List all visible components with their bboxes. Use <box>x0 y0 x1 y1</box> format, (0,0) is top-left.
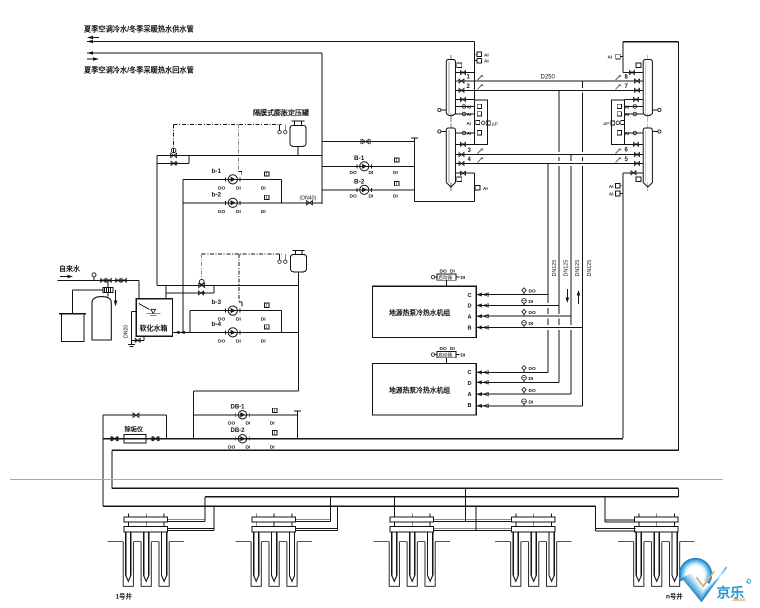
riser g34 b <box>475 506 477 530</box>
AI tap on x474 <box>475 185 487 191</box>
header H4 right-lower <box>643 124 652 192</box>
heat pump unit U1 <box>373 286 477 337</box>
svg-text:DI: DI <box>270 421 275 427</box>
svg-text:DN125: DN125 <box>564 260 570 277</box>
wire x193.6 down <box>193 391 195 439</box>
svg-text:AI: AI <box>467 131 471 136</box>
pipe 3-6 <box>456 154 644 156</box>
expansion tank T1 <box>290 121 306 146</box>
wire descaler bypass <box>103 414 166 416</box>
tank1 safety a <box>278 125 281 134</box>
svg-text:地源热泵冷热水机组: 地源热泵冷热水机组 <box>389 308 450 317</box>
vent G H3 <box>636 63 641 68</box>
tap H1 left <box>438 108 447 111</box>
svg-text:DI: DI <box>529 376 534 382</box>
flag pipe4 R <box>616 157 622 162</box>
sensor DB-2 <box>273 431 277 435</box>
svg-text:AI: AI <box>484 59 489 64</box>
wire b-box right <box>281 179 283 202</box>
wire right border <box>678 42 680 451</box>
wire U1-B <box>476 326 582 328</box>
pipe supply P1 <box>87 40 474 44</box>
wire U2-D <box>476 381 559 383</box>
wire head to brine <box>73 290 103 314</box>
svg-text:DI: DI <box>236 317 241 323</box>
wire riser right x623 top <box>622 42 624 73</box>
svg-text:ΔP: ΔP <box>492 121 498 127</box>
well group 4 <box>495 514 572 587</box>
branch H2 to dP-L <box>456 143 475 145</box>
motor valve y155.4 <box>171 148 177 158</box>
valve pipe1 L <box>459 79 464 83</box>
flag pipe3 L <box>478 149 484 154</box>
check y292.9 <box>199 291 206 295</box>
wire row DB-1 <box>194 414 298 416</box>
svg-text:AI: AI <box>467 105 471 110</box>
soft water tank <box>136 299 172 337</box>
ground line <box>10 479 723 481</box>
svg-text:夏季空调冷水/冬季采暖热水供水管: 夏季空调冷水/冬季采暖热水供水管 <box>83 25 194 34</box>
sensor DB-1 <box>273 408 277 412</box>
svg-text:AI: AI <box>609 184 614 189</box>
wire x166 to tank <box>165 285 167 298</box>
AI tap supply-2 <box>474 58 488 63</box>
svg-text:B: B <box>468 403 472 409</box>
svg-text:A: A <box>468 392 472 398</box>
valve pipe4 R <box>635 161 640 165</box>
arrow tap water <box>60 275 73 278</box>
well group 5 <box>618 514 695 587</box>
flag pipe2 L <box>478 84 484 89</box>
valve tap 3 <box>116 279 121 283</box>
valve pipe3 L <box>459 153 464 157</box>
wire row C <box>103 505 595 507</box>
wire row B-1 <box>322 165 414 167</box>
svg-text:隔膜式膨胀定压罐: 隔膜式膨胀定压罐 <box>253 108 309 117</box>
svg-text:b-1: b-1 <box>212 168 222 175</box>
wire x414 down <box>413 142 415 202</box>
svg-text:DI: DI <box>261 338 266 344</box>
ctrl dashdot x173.6 <box>173 125 175 148</box>
wire row DA left end <box>111 450 113 488</box>
wire U2-C <box>476 371 548 373</box>
pipe 4-5 <box>456 162 644 164</box>
svg-text:DN125: DN125 <box>575 260 581 277</box>
svg-text:DN20: DN20 <box>124 325 130 338</box>
svg-text:除垢仪: 除垢仪 <box>125 426 144 434</box>
svg-text:DO: DO <box>228 421 235 427</box>
svg-text:AI: AI <box>484 52 489 57</box>
svg-text:B-2: B-2 <box>354 179 365 186</box>
ctrl dashdot x238.9 <box>239 254 242 306</box>
wire suction y155.4 <box>157 154 322 156</box>
sensor b-4 <box>265 325 269 329</box>
branch H4 to dP-R <box>625 143 644 145</box>
branch H1 to dP-L <box>456 99 475 101</box>
tap H3 right <box>652 108 661 111</box>
pump b-2 <box>226 198 240 207</box>
wire y390.8 <box>194 390 299 392</box>
pipe 2-7 <box>456 89 644 91</box>
vent G H2 <box>457 177 462 182</box>
riser g1 b <box>213 506 215 530</box>
wire row b-4 <box>190 331 299 333</box>
wire top row y141.5 <box>322 141 414 143</box>
svg-text:DI: DI <box>236 185 241 191</box>
bus DN125 v4 <box>582 81 584 406</box>
valve descaler R <box>152 437 159 442</box>
svg-text:n号井: n号井 <box>666 592 683 601</box>
dP block left U-AI <box>456 100 498 145</box>
bus DN125 v1 <box>547 163 549 372</box>
wire U2-B <box>476 405 582 407</box>
tank2 safety b <box>284 254 287 263</box>
level mark <box>147 309 161 316</box>
svg-text:DI: DI <box>369 170 374 176</box>
vent G H1 <box>457 63 462 68</box>
svg-text:A: A <box>468 314 472 320</box>
valve tap 2 <box>107 279 112 283</box>
wire x214 link <box>213 285 215 293</box>
wire head drop <box>107 280 109 287</box>
valve pipe4 L <box>459 161 464 165</box>
pipe return P2 <box>87 51 322 55</box>
wire row D <box>112 449 679 451</box>
wire makeup y285.4 <box>157 284 299 286</box>
starter unit1 <box>431 268 466 286</box>
vent G H4 <box>636 177 641 182</box>
svg-text:DI: DI <box>236 338 241 344</box>
wire x623 long down <box>622 173 624 438</box>
motor valve y285.4 <box>199 279 205 287</box>
svg-text:DO: DO <box>228 444 235 450</box>
wire feed drop <box>138 280 140 298</box>
sensor b-3 <box>265 303 269 307</box>
tap H4 right <box>652 130 661 133</box>
arrow below return <box>87 57 99 61</box>
wire row B-2 <box>322 189 414 191</box>
svg-text:ΔP: ΔP <box>603 121 609 127</box>
wire row B <box>205 496 678 498</box>
svg-text:DI: DI <box>450 346 455 352</box>
logo JingLe <box>679 558 750 602</box>
svg-text:DO: DO <box>350 194 357 200</box>
svg-text:DI: DI <box>246 421 251 427</box>
wire row b-2 <box>183 202 322 204</box>
wire return drop x322 <box>321 53 323 204</box>
AI tap x623 b <box>609 191 623 196</box>
svg-text:DO: DO <box>218 185 225 191</box>
AI tap supply-1 <box>474 52 488 57</box>
pump DB-2 <box>236 435 250 443</box>
wire U2-A <box>476 393 571 395</box>
svg-text:DI: DI <box>246 444 251 450</box>
riser g3 drop <box>394 497 396 517</box>
wire row b-3 <box>190 310 282 312</box>
wire row b-1 <box>183 178 281 180</box>
wire b-box left long <box>182 179 184 332</box>
valve descaler L <box>111 437 118 442</box>
header H2 left-lower <box>446 124 455 192</box>
svg-text:DO: DO <box>440 268 447 274</box>
starter unit2 <box>431 346 466 364</box>
conn g3-g4 bar1 <box>434 519 512 521</box>
valve pipe3 R <box>635 153 640 157</box>
svg-text:DO: DO <box>218 338 225 344</box>
flag pipe1 R <box>616 75 622 80</box>
wire P1 right segment <box>623 41 679 43</box>
AI tap right top <box>608 54 624 59</box>
wire U1-C <box>476 294 548 296</box>
cap x414 top <box>411 138 418 142</box>
wire bottom row left box <box>414 201 474 203</box>
valve y141.5 <box>361 139 371 144</box>
riser g2 a <box>330 497 332 522</box>
svg-text:夏季空调冷水/冬季采暖热水回水管: 夏季空调冷水/冬季采暖热水回水管 <box>83 66 194 75</box>
svg-text:DI: DI <box>369 194 374 200</box>
branch H4 bottom <box>623 172 643 174</box>
heat pump unit U2 <box>373 364 477 415</box>
well group 1 <box>108 514 185 587</box>
conn g1 bar1 <box>168 519 205 521</box>
well group 3 <box>374 514 451 587</box>
descaler box <box>124 434 146 443</box>
gauge on tap <box>92 273 96 281</box>
ctrl dashdot x201.7 <box>201 254 203 280</box>
wire x103.2 <box>102 415 104 506</box>
wire tank outlet <box>131 336 144 340</box>
valve pipe2 L <box>459 88 464 92</box>
valve tank drain <box>135 338 140 342</box>
svg-text:DO: DO <box>218 209 225 215</box>
svg-text:AI: AI <box>609 192 614 197</box>
branch H2 bottom <box>456 172 475 174</box>
svg-text:启动器: 启动器 <box>438 352 452 359</box>
softener head <box>103 287 113 292</box>
riser g2 b <box>337 506 339 530</box>
svg-text:AI: AI <box>483 186 488 191</box>
ctrl dashdot x238.3 <box>238 125 242 176</box>
header H3 right-upper <box>643 55 652 122</box>
sensor b-1 <box>265 172 269 176</box>
flag pipe1 L <box>478 75 484 80</box>
sensor b-2 <box>265 195 269 199</box>
svg-text:DO: DO <box>529 366 536 372</box>
branch H3 to dP-R <box>625 99 644 101</box>
flow arrow up <box>577 290 581 304</box>
wire bypass y163.3 <box>157 162 189 164</box>
AI tap x623 a <box>609 184 623 189</box>
svg-text:b-2: b-2 <box>212 192 222 199</box>
svg-text:DN125: DN125 <box>552 260 558 277</box>
ctrl dashdot y124.5 <box>174 124 282 126</box>
conn g5 bar1 <box>605 520 635 522</box>
svg-text:启动器: 启动器 <box>438 274 452 281</box>
brine tank <box>59 314 86 342</box>
tap H2 left <box>438 130 447 133</box>
svg-text:DO: DO <box>350 170 357 176</box>
svg-text:DB-1: DB-1 <box>231 405 246 411</box>
svg-text:DI: DI <box>236 209 241 215</box>
wire main row <box>103 438 623 440</box>
svg-text:R: R <box>747 580 749 584</box>
pump B-2 <box>357 185 371 194</box>
valve tap 4 <box>122 279 127 283</box>
pump b-1 <box>226 175 240 184</box>
well group 2 <box>235 514 312 587</box>
svg-text:C: C <box>468 293 472 299</box>
svg-text:DI: DI <box>450 268 455 274</box>
wire U1-A <box>476 315 571 317</box>
svg-text:AI: AI <box>625 105 629 110</box>
svg-text:DI: DI <box>529 321 534 327</box>
svg-text:AI: AI <box>608 55 613 60</box>
svg-text:DI: DI <box>261 317 266 323</box>
riser g5 a <box>604 497 606 522</box>
svg-text:b-3: b-3 <box>212 299 222 306</box>
sensor B-1 <box>395 158 399 162</box>
wire x474 down <box>473 173 475 201</box>
svg-text:DI: DI <box>261 209 266 215</box>
tank1 safety b <box>284 125 287 134</box>
svg-text:DO: DO <box>529 388 536 394</box>
flag pipe4 L <box>478 157 484 162</box>
riser g5 b <box>594 506 596 531</box>
wire riser left x474 <box>473 42 475 100</box>
pump B-1 <box>357 162 371 171</box>
svg-text:DI: DI <box>461 275 466 281</box>
riser g34 a <box>465 488 467 521</box>
wire bypass riser <box>188 155 190 163</box>
svg-text:DI: DI <box>461 353 466 359</box>
tank2 safety a <box>278 254 281 263</box>
svg-text:(DN40): (DN40) <box>300 196 317 202</box>
conn g3-g4 bar2 <box>434 528 512 530</box>
valve DN40 <box>307 201 313 205</box>
wire x156.9 down <box>156 155 158 285</box>
valve tap 1 <box>101 279 106 283</box>
conn g2 bar2 <box>295 528 337 530</box>
dP block right U-AI <box>603 100 643 145</box>
wire head neck <box>107 292 109 296</box>
pump DB-1 <box>236 411 250 419</box>
svg-text:B: B <box>468 326 472 332</box>
ctrl dashdot y254 <box>202 253 282 255</box>
svg-text:DI: DI <box>529 400 534 406</box>
float valve <box>139 304 150 310</box>
expansion tank T2 <box>291 250 307 271</box>
bus DN125 v3 <box>570 155 572 395</box>
svg-text:D: D <box>468 381 472 387</box>
sensor B-2 <box>395 181 399 185</box>
svg-text:AI: AI <box>625 112 629 117</box>
branch H3 top <box>623 72 643 74</box>
svg-text:JINGLE: JINGLE <box>733 598 747 602</box>
wire row AB right end <box>677 488 679 497</box>
svg-text:DN125: DN125 <box>587 260 593 277</box>
conn g1 bar2 <box>168 528 214 530</box>
wire makeup y292.9 <box>166 292 214 294</box>
conn g5 bar2 <box>595 529 635 531</box>
pump b-3 <box>226 306 240 315</box>
arrow above supply <box>87 36 99 40</box>
wire x166.3 <box>165 415 167 439</box>
svg-text:C: C <box>468 370 472 376</box>
flag pipe3 R <box>616 149 622 154</box>
svg-text:DB-2: DB-2 <box>231 428 246 434</box>
svg-text:b-4: b-4 <box>212 321 222 328</box>
pipe 1-8 D250 <box>456 80 644 82</box>
svg-text:DO: DO <box>529 310 536 316</box>
svg-text:AI: AI <box>625 131 629 136</box>
svg-text:DI: DI <box>393 170 398 176</box>
overflow pipe <box>128 311 137 346</box>
svg-text:DO: DO <box>440 346 447 352</box>
svg-text:1号井: 1号井 <box>116 592 133 601</box>
wire b34-box left <box>189 311 191 333</box>
svg-text:D: D <box>468 304 472 310</box>
wire tap pipe <box>58 279 139 281</box>
svg-text:DI: DI <box>270 444 275 450</box>
valve pipe2 R <box>635 88 640 92</box>
riser g1 a <box>204 497 206 522</box>
flow arrow down <box>566 289 570 303</box>
svg-text:DO: DO <box>529 288 536 294</box>
cap x297.7 <box>294 411 301 439</box>
svg-text:DI: DI <box>529 299 534 305</box>
wire row A <box>112 487 678 489</box>
flag pipe2 R <box>616 84 622 89</box>
arrow b34 suction <box>175 331 185 334</box>
svg-text:AI: AI <box>467 112 471 117</box>
bus DN125 v2 <box>558 90 560 382</box>
drain arrow <box>114 290 118 307</box>
header H1 left-upper <box>446 55 455 122</box>
valve pipe1 R <box>635 79 640 83</box>
svg-text:B-1: B-1 <box>354 155 365 162</box>
valve bypass <box>133 413 139 417</box>
conn g2 bar1 <box>295 519 330 521</box>
check valve bypass <box>171 161 178 165</box>
resin tank <box>92 297 111 340</box>
wire b34 suction <box>173 331 190 333</box>
branch H1 top <box>456 72 475 74</box>
wire U1-D <box>476 304 559 306</box>
svg-text:D250: D250 <box>541 75 556 81</box>
svg-text:地源热泵冷热水机组: 地源热泵冷热水机组 <box>389 386 450 395</box>
pump b-4 <box>226 328 240 337</box>
svg-text:自来水: 自来水 <box>59 264 81 273</box>
svg-text:DI: DI <box>261 185 266 191</box>
svg-text:DI: DI <box>393 194 398 200</box>
svg-text:AI: AI <box>467 121 471 126</box>
wire T1 drop <box>297 146 299 155</box>
wire b34-box right <box>281 311 283 333</box>
svg-text:软化水箱: 软化水箱 <box>140 324 168 333</box>
wire T2 drop long <box>298 272 300 391</box>
